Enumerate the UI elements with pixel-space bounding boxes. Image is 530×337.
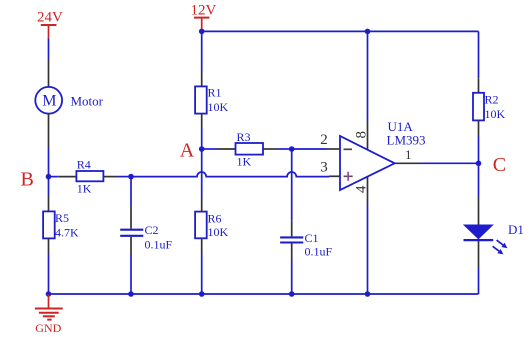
svg-text:3: 3 xyxy=(320,159,328,175)
wire xyxy=(48,148,50,177)
svg-text:24V: 24V xyxy=(37,10,63,26)
svg-text:R1: R1 xyxy=(208,86,222,100)
wire xyxy=(49,176,59,178)
wire xyxy=(48,253,50,294)
junction xyxy=(199,146,205,152)
wire xyxy=(478,267,480,294)
wire xyxy=(291,260,293,294)
wire xyxy=(420,162,479,164)
wire pin 2 stub xyxy=(327,148,340,150)
svg-text:A: A xyxy=(180,140,195,162)
svg-text:Motor: Motor xyxy=(71,93,104,108)
op-amp U1A xyxy=(340,119,426,190)
svg-text:R5: R5 xyxy=(55,211,69,225)
svg-text:M: M xyxy=(42,93,56,110)
capacitor C1 xyxy=(280,221,332,260)
svg-text:C: C xyxy=(493,154,506,176)
wire xyxy=(117,176,131,178)
wire xyxy=(202,148,218,150)
svg-text:R4: R4 xyxy=(77,157,91,171)
LED D1 xyxy=(464,197,524,267)
svg-text:2: 2 xyxy=(320,132,328,148)
svg-text:4: 4 xyxy=(354,185,370,193)
wire bottom rail xyxy=(49,293,479,295)
svg-text:B: B xyxy=(21,168,34,190)
wire xyxy=(201,253,203,294)
wire xyxy=(130,253,132,294)
svg-text:12V: 12V xyxy=(191,3,217,19)
wire xyxy=(478,31,480,78)
svg-text:R2: R2 xyxy=(485,93,499,107)
wire top rail xyxy=(202,30,479,32)
svg-text:C1: C1 xyxy=(305,231,319,245)
svg-text:10K: 10K xyxy=(208,100,229,114)
capacitor C2 xyxy=(120,205,172,253)
resistor R2 xyxy=(473,78,506,136)
svg-text:GND: GND xyxy=(35,321,61,335)
svg-text:LM393: LM393 xyxy=(387,132,426,147)
motor M1 xyxy=(35,59,103,148)
svg-text:1: 1 xyxy=(405,147,412,162)
wire xyxy=(291,149,293,221)
svg-text:0.1uF: 0.1uF xyxy=(305,245,333,259)
wire xyxy=(478,136,480,163)
wire pin 1 output xyxy=(395,162,420,164)
resistor R4 xyxy=(59,157,117,195)
resistor R6 xyxy=(195,198,228,253)
svg-text:1K: 1K xyxy=(77,182,92,196)
svg-text:10K: 10K xyxy=(208,225,229,239)
junction xyxy=(46,291,52,297)
svg-text:D1: D1 xyxy=(508,222,524,237)
svg-text:0.1uF: 0.1uF xyxy=(145,238,173,252)
svg-text:4.7K: 4.7K xyxy=(55,225,79,239)
svg-text:R6: R6 xyxy=(208,211,222,225)
wire op-amp power column xyxy=(367,31,369,294)
wire xyxy=(201,128,203,149)
svg-text:R3: R3 xyxy=(237,130,251,144)
power 12V xyxy=(191,3,217,32)
wire with hop over A column xyxy=(131,172,329,177)
wire xyxy=(278,148,292,150)
wire xyxy=(48,39,50,60)
resistor R3 xyxy=(218,130,279,169)
resistor R1 xyxy=(195,72,228,128)
svg-text:1K: 1K xyxy=(237,155,252,169)
wire xyxy=(201,149,203,198)
power 24V xyxy=(37,10,63,39)
junction xyxy=(476,161,482,167)
junction xyxy=(199,29,205,35)
svg-text:8: 8 xyxy=(353,131,369,139)
wire pin 3 stub xyxy=(329,175,340,177)
wire xyxy=(48,177,50,196)
junction xyxy=(46,174,52,180)
wire xyxy=(201,31,203,72)
wire xyxy=(478,163,480,197)
svg-text:10K: 10K xyxy=(485,107,506,121)
junction xyxy=(289,146,295,152)
wire xyxy=(292,148,327,150)
junction xyxy=(128,174,134,180)
svg-text:C2: C2 xyxy=(145,223,159,237)
junction xyxy=(128,291,134,297)
wire xyxy=(130,177,132,205)
ground xyxy=(35,294,63,335)
junction xyxy=(365,291,371,297)
junction xyxy=(199,291,205,297)
resistor R5 xyxy=(43,196,79,253)
junction xyxy=(289,291,295,297)
junction xyxy=(365,29,371,35)
